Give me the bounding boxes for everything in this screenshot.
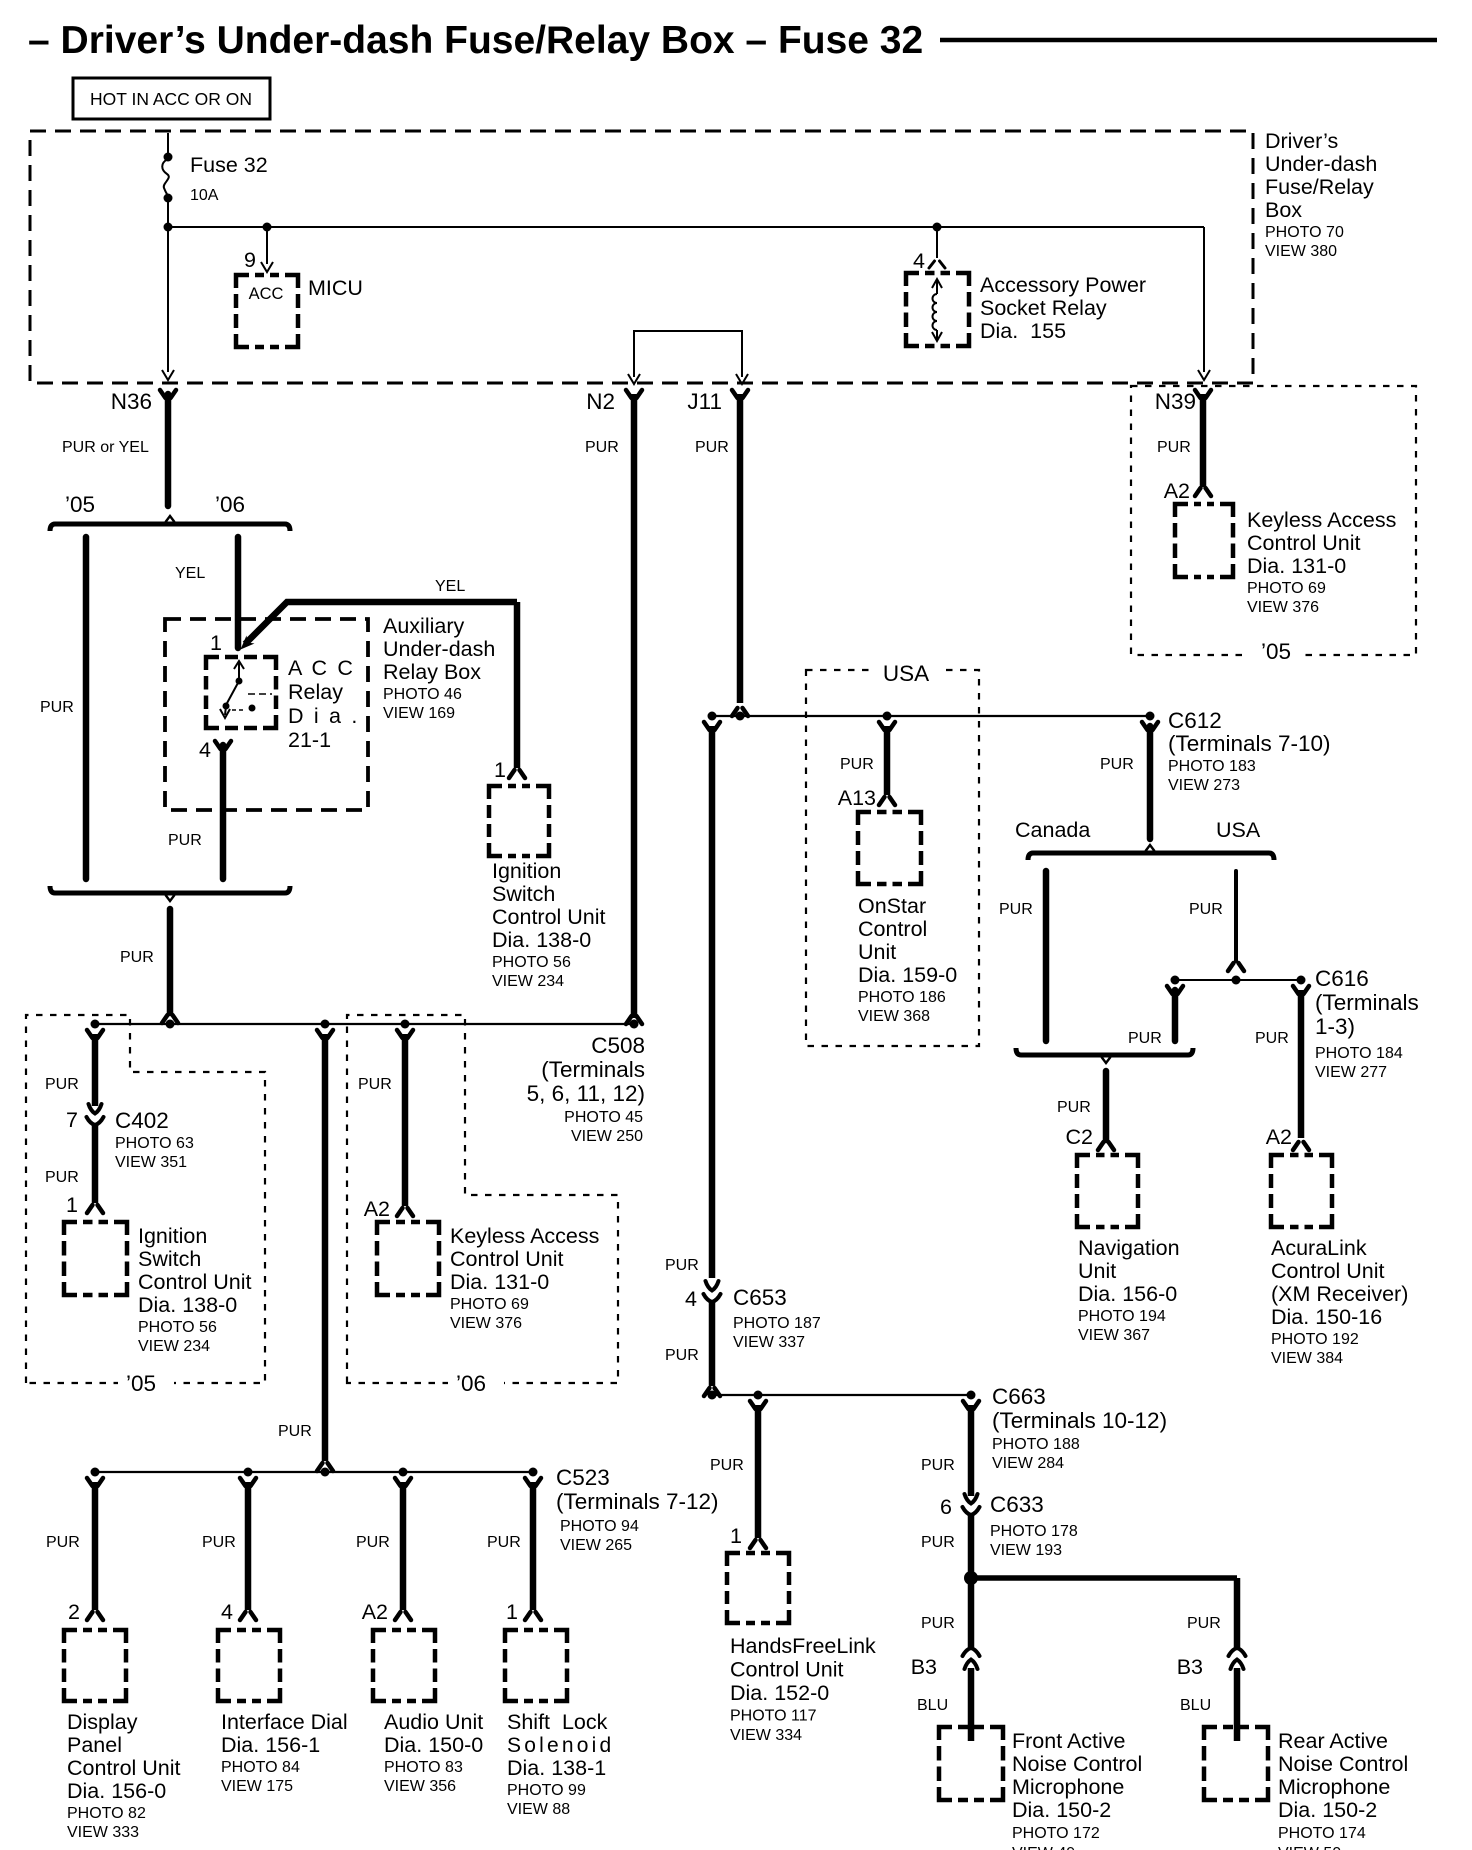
svg-text:PHOTO 183: PHOTO 183: [1168, 758, 1256, 775]
svg-text:PHOTO 46: PHOTO 46: [383, 686, 462, 703]
svg-text:PUR: PUR: [45, 1169, 79, 1186]
svg-text:PHOTO 70: PHOTO 70: [1265, 224, 1344, 241]
svg-text:9: 9: [244, 248, 256, 272]
svg-text:Ignition: Ignition: [138, 1224, 207, 1248]
svg-text:VIEW 384: VIEW 384: [1271, 1350, 1343, 1367]
svg-text:PUR: PUR: [487, 1534, 521, 1551]
svg-text:PUR or YEL: PUR or YEL: [62, 439, 149, 456]
svg-text:PUR: PUR: [356, 1534, 390, 1551]
svg-text:A C C: A C C: [288, 656, 355, 680]
svg-text:Front Active: Front Active: [1012, 1729, 1126, 1753]
svg-text:Noise Control: Noise Control: [1278, 1752, 1408, 1776]
svg-text:A2: A2: [364, 1197, 390, 1221]
svg-text:(XM Receiver): (XM Receiver): [1271, 1282, 1408, 1306]
svg-text:(Terminals: (Terminals: [1315, 990, 1419, 1015]
svg-text:VIEW 376: VIEW 376: [450, 1315, 522, 1332]
svg-text:PHOTO 56: PHOTO 56: [138, 1319, 217, 1336]
svg-text:B3: B3: [1177, 1655, 1203, 1679]
svg-text:Dia. 138-1: Dia. 138-1: [507, 1756, 606, 1780]
svg-text:Fuse 32: Fuse 32: [190, 153, 268, 177]
svg-text:PUR: PUR: [40, 699, 74, 716]
svg-text:Canada: Canada: [1015, 818, 1090, 842]
svg-text:VIEW 277: VIEW 277: [1315, 1064, 1387, 1081]
svg-text:VIEW 50: VIEW 50: [1278, 1845, 1341, 1850]
svg-text:(Terminals 7-12): (Terminals 7-12): [556, 1489, 719, 1514]
svg-text:Driver’s: Driver’s: [1265, 129, 1338, 153]
svg-text:Relay: Relay: [288, 680, 343, 704]
svg-text:7: 7: [66, 1108, 78, 1132]
svg-text:Control Unit: Control Unit: [67, 1756, 181, 1780]
svg-text:Control Unit: Control Unit: [1247, 531, 1361, 555]
svg-text:(Terminals 10-12): (Terminals 10-12): [992, 1408, 1167, 1433]
svg-text:VIEW 367: VIEW 367: [1078, 1327, 1150, 1344]
svg-text:Control Unit: Control Unit: [450, 1247, 564, 1271]
svg-text:C612: C612: [1168, 708, 1222, 733]
svg-text:Microphone: Microphone: [1278, 1775, 1390, 1799]
svg-text:PUR: PUR: [921, 1457, 955, 1474]
svg-text:5, 6, 11, 12): 5, 6, 11, 12): [527, 1081, 645, 1106]
svg-text:Microphone: Microphone: [1012, 1775, 1124, 1799]
svg-text:N39: N39: [1155, 389, 1196, 414]
svg-text:’05: ’05: [1261, 639, 1291, 664]
svg-text:C402: C402: [115, 1108, 169, 1133]
svg-text:PHOTO 174: PHOTO 174: [1278, 1825, 1366, 1842]
svg-text:PUR: PUR: [120, 949, 154, 966]
svg-text:PHOTO 99: PHOTO 99: [507, 1782, 586, 1799]
svg-text:’05: ’05: [65, 492, 95, 517]
svg-text:PUR: PUR: [695, 439, 729, 456]
svg-text:Dia. 156-1: Dia. 156-1: [221, 1733, 320, 1757]
svg-text:C633: C633: [990, 1492, 1044, 1517]
svg-text:Auxiliary: Auxiliary: [383, 614, 464, 638]
svg-text:VIEW 380: VIEW 380: [1265, 243, 1337, 260]
svg-text:Panel: Panel: [67, 1733, 122, 1757]
svg-text:VIEW 368: VIEW 368: [858, 1008, 930, 1025]
svg-text:1: 1: [210, 631, 222, 655]
svg-text:D i a .: D i a .: [288, 704, 360, 728]
svg-text:4: 4: [199, 738, 211, 762]
svg-text:PUR: PUR: [665, 1257, 699, 1274]
svg-text:PHOTO 184: PHOTO 184: [1315, 1045, 1403, 1062]
svg-text:BLU: BLU: [1180, 1697, 1211, 1714]
svg-text:PHOTO 192: PHOTO 192: [1271, 1331, 1359, 1348]
svg-text:Dia. 155: Dia. 155: [980, 319, 1066, 343]
svg-text:4: 4: [685, 1287, 697, 1311]
svg-text:C663: C663: [992, 1384, 1046, 1409]
svg-text:PUR: PUR: [999, 901, 1033, 918]
svg-text:OnStar: OnStar: [858, 894, 926, 918]
svg-text:VIEW 337: VIEW 337: [733, 1334, 805, 1351]
svg-text:PHOTO 117: PHOTO 117: [730, 1708, 817, 1725]
svg-text:(Terminals: (Terminals: [541, 1057, 645, 1082]
svg-text:Dia. 152-0: Dia. 152-0: [730, 1681, 829, 1705]
svg-text:PUR: PUR: [168, 832, 202, 849]
svg-text:VIEW 265: VIEW 265: [560, 1537, 632, 1554]
svg-text:1: 1: [730, 1524, 742, 1548]
svg-text:USA: USA: [883, 661, 929, 686]
svg-text:PUR: PUR: [921, 1615, 955, 1632]
svg-text:Dia. 150-2: Dia. 150-2: [1278, 1798, 1377, 1822]
svg-text:PHOTO 82: PHOTO 82: [67, 1805, 146, 1822]
svg-text:VIEW 175: VIEW 175: [221, 1778, 293, 1795]
svg-text:YEL: YEL: [435, 578, 465, 595]
svg-text:PHOTO 94: PHOTO 94: [560, 1518, 639, 1535]
svg-text:Dia. 138-0: Dia. 138-0: [138, 1293, 237, 1317]
svg-text:C508: C508: [591, 1033, 645, 1058]
svg-text:PHOTO 188: PHOTO 188: [992, 1436, 1080, 1453]
svg-text:Dia. 131-0: Dia. 131-0: [450, 1270, 549, 1294]
svg-text:PHOTO 187: PHOTO 187: [733, 1315, 821, 1332]
svg-text:VIEW 333: VIEW 333: [67, 1824, 139, 1841]
svg-text:Socket Relay: Socket Relay: [980, 296, 1107, 320]
svg-text:YEL: YEL: [175, 565, 205, 582]
svg-text:C2: C2: [1066, 1125, 1093, 1149]
svg-text:PHOTO 63: PHOTO 63: [115, 1135, 194, 1152]
svg-text:Control: Control: [858, 917, 927, 941]
svg-text:PUR: PUR: [202, 1534, 236, 1551]
svg-text:– Driver’s Under-dash Fuse/Rel: – Driver’s Under-dash Fuse/Relay Box – F…: [28, 19, 923, 62]
svg-text:PUR: PUR: [1255, 1030, 1289, 1047]
svg-text:6: 6: [940, 1495, 952, 1519]
svg-text:’06: ’06: [456, 1371, 486, 1396]
svg-text:PUR: PUR: [1157, 439, 1191, 456]
svg-text:Display: Display: [67, 1710, 138, 1734]
svg-text:PUR: PUR: [921, 1534, 955, 1551]
svg-text:Solenoid: Solenoid: [507, 1734, 614, 1757]
svg-text:A13: A13: [838, 786, 876, 810]
svg-text:Keyless Access: Keyless Access: [450, 1224, 599, 1248]
svg-text:Under-dash: Under-dash: [383, 637, 495, 661]
svg-text:10A: 10A: [190, 187, 219, 204]
svg-text:A2: A2: [1164, 479, 1190, 503]
svg-text:Control Unit: Control Unit: [1271, 1259, 1385, 1283]
svg-text:2: 2: [68, 1600, 80, 1624]
svg-text:VIEW 356: VIEW 356: [384, 1778, 456, 1795]
svg-text:PUR: PUR: [1100, 756, 1134, 773]
svg-text:PHOTO 172: PHOTO 172: [1012, 1825, 1100, 1842]
svg-text:PUR: PUR: [665, 1347, 699, 1364]
svg-text:MICU: MICU: [308, 276, 363, 300]
svg-text:Relay Box: Relay Box: [383, 660, 481, 684]
svg-text:Fuse/Relay: Fuse/Relay: [1265, 175, 1374, 199]
svg-text:Control Unit: Control Unit: [138, 1270, 252, 1294]
svg-text:Dia. 156-0: Dia. 156-0: [67, 1779, 166, 1803]
svg-text:Box: Box: [1265, 198, 1302, 222]
svg-text:Switch: Switch: [492, 882, 555, 906]
svg-text:B3: B3: [911, 1655, 937, 1679]
svg-text:C653: C653: [733, 1285, 787, 1310]
svg-text:PUR: PUR: [585, 439, 619, 456]
svg-text:Control Unit: Control Unit: [730, 1658, 844, 1682]
svg-text:PUR: PUR: [1187, 1615, 1221, 1632]
svg-text:Switch: Switch: [138, 1247, 201, 1271]
svg-text:VIEW 273: VIEW 273: [1168, 777, 1240, 794]
svg-text:PHOTO 56: PHOTO 56: [492, 954, 571, 971]
svg-text:1-3): 1-3): [1315, 1014, 1355, 1039]
svg-text:4: 4: [221, 1600, 233, 1624]
svg-text:PHOTO 69: PHOTO 69: [1247, 580, 1326, 597]
svg-text:1: 1: [506, 1600, 518, 1624]
svg-text:PHOTO 178: PHOTO 178: [990, 1523, 1078, 1540]
svg-text:Navigation: Navigation: [1078, 1236, 1180, 1260]
svg-text:HOT IN ACC OR ON: HOT IN ACC OR ON: [90, 89, 252, 109]
svg-text:N2: N2: [586, 389, 615, 414]
svg-text:PUR: PUR: [45, 1076, 79, 1093]
svg-text:PHOTO 84: PHOTO 84: [221, 1759, 300, 1776]
svg-text:PHOTO 45: PHOTO 45: [564, 1109, 643, 1126]
svg-text:PUR: PUR: [840, 756, 874, 773]
svg-text:Ignition: Ignition: [492, 859, 561, 883]
svg-text:VIEW 250: VIEW 250: [571, 1128, 643, 1145]
svg-text:VIEW 169: VIEW 169: [383, 705, 455, 722]
svg-text:PUR: PUR: [358, 1076, 392, 1093]
svg-text:VIEW 88: VIEW 88: [507, 1801, 570, 1818]
svg-text:PHOTO 186: PHOTO 186: [858, 989, 946, 1006]
svg-text:ACC: ACC: [249, 285, 284, 303]
svg-text:Unit: Unit: [1078, 1259, 1116, 1283]
svg-text:VIEW 351: VIEW 351: [115, 1154, 187, 1171]
svg-text:Unit: Unit: [858, 940, 896, 964]
svg-text:Keyless Access: Keyless Access: [1247, 508, 1396, 532]
svg-text:Rear Active: Rear Active: [1278, 1729, 1388, 1753]
svg-text:N36: N36: [111, 389, 152, 414]
svg-text:Dia. 150-16: Dia. 150-16: [1271, 1305, 1382, 1329]
svg-text:PUR: PUR: [710, 1457, 744, 1474]
svg-text:’05: ’05: [126, 1371, 156, 1396]
svg-text:4: 4: [913, 249, 925, 273]
svg-text:J11: J11: [687, 389, 722, 414]
svg-text:VIEW 234: VIEW 234: [138, 1338, 210, 1355]
svg-text:C523: C523: [556, 1465, 610, 1490]
svg-text:Noise Control: Noise Control: [1012, 1752, 1142, 1776]
svg-text:PUR: PUR: [278, 1423, 312, 1440]
svg-text:VIEW 284: VIEW 284: [992, 1455, 1064, 1472]
svg-text:AcuraLink: AcuraLink: [1271, 1236, 1367, 1260]
svg-text:Audio Unit: Audio Unit: [384, 1710, 483, 1734]
svg-text:21-1: 21-1: [288, 728, 331, 752]
svg-text:Under-dash: Under-dash: [1265, 152, 1377, 176]
svg-text:’06: ’06: [215, 492, 245, 517]
svg-text:PHOTO 194: PHOTO 194: [1078, 1308, 1166, 1325]
svg-text:VIEW 334: VIEW 334: [730, 1727, 802, 1744]
svg-text:HandsFreeLink: HandsFreeLink: [730, 1634, 876, 1658]
svg-text:VIEW 234: VIEW 234: [492, 973, 564, 990]
svg-text:PUR: PUR: [1189, 901, 1223, 918]
svg-text:A2: A2: [1266, 1125, 1292, 1149]
svg-text:PHOTO 83: PHOTO 83: [384, 1759, 463, 1776]
svg-text:Dia. 159-0: Dia. 159-0: [858, 963, 957, 987]
svg-text:PUR: PUR: [1128, 1030, 1162, 1047]
svg-text:Dia. 156-0: Dia. 156-0: [1078, 1282, 1177, 1306]
svg-text:PHOTO 69: PHOTO 69: [450, 1296, 529, 1313]
svg-text:VIEW 376: VIEW 376: [1247, 599, 1319, 616]
svg-text:Dia. 138-0: Dia. 138-0: [492, 928, 591, 952]
svg-text:PUR: PUR: [46, 1534, 80, 1551]
svg-text:C616: C616: [1315, 966, 1369, 991]
svg-text:Shift Lock: Shift Lock: [507, 1710, 608, 1734]
svg-text:Dia. 150-2: Dia. 150-2: [1012, 1798, 1111, 1822]
svg-text:Interface Dial: Interface Dial: [221, 1710, 348, 1734]
svg-text:VIEW 49: VIEW 49: [1012, 1845, 1075, 1850]
svg-text:Control Unit: Control Unit: [492, 905, 606, 929]
svg-text:PUR: PUR: [1057, 1099, 1091, 1116]
svg-text:1: 1: [494, 758, 506, 782]
svg-text:A2: A2: [362, 1600, 388, 1624]
svg-text:VIEW 193: VIEW 193: [990, 1542, 1062, 1559]
svg-text:Dia. 150-0: Dia. 150-0: [384, 1733, 483, 1757]
svg-text:1: 1: [66, 1193, 78, 1217]
svg-text:Dia. 131-0: Dia. 131-0: [1247, 554, 1346, 578]
svg-text:USA: USA: [1216, 818, 1261, 842]
svg-text:Accessory Power: Accessory Power: [980, 273, 1146, 297]
svg-text:BLU: BLU: [917, 1697, 948, 1714]
svg-text:(Terminals 7-10): (Terminals 7-10): [1168, 731, 1331, 756]
